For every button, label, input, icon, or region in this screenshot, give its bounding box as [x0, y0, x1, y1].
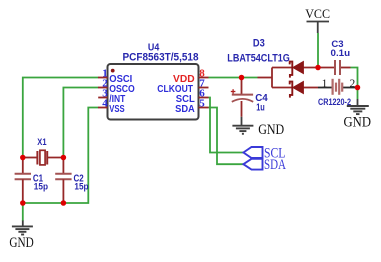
- svg-text:0.1u: 0.1u: [331, 48, 351, 58]
- svg-text:GND: GND: [9, 235, 33, 251]
- svg-text:VSS: VSS: [109, 104, 125, 115]
- U4 pin numbers left: [102, 68, 108, 110]
- capacitor C3: [335, 60, 351, 75]
- capacitor C2: [55, 158, 71, 204]
- wire pin5 SDA to SDA flag: [209, 108, 244, 165]
- svg-text:LBAT54CLT1G: LBAT54CLT1G: [227, 52, 289, 64]
- diode D3 top (schottky): [290, 62, 304, 78]
- svg-text:SDA: SDA: [264, 157, 286, 173]
- svg-text:D3: D3: [253, 38, 265, 50]
- svg-text:1u: 1u: [256, 103, 265, 114]
- wire pin1 OSCI to crystal left node: [23, 78, 99, 158]
- wire pin4 VSS to bottom ground rail: [23, 108, 99, 222]
- svg-text:2: 2: [350, 78, 356, 90]
- U4 pin names right: [157, 74, 195, 115]
- junction dot crystal right: [61, 155, 67, 161]
- wire VCC to top diode node: [317, 33, 319, 68]
- SCL net flag: [243, 146, 285, 162]
- svg-text:X1: X1: [37, 136, 46, 147]
- capacitor C4 polarized: [231, 78, 253, 117]
- VCC power symbol: [307, 22, 330, 34]
- svg-text:CR1220-2: CR1220-2: [318, 97, 351, 107]
- wire pin2 OSCO to crystal right node: [63, 88, 98, 158]
- svg-text:GND: GND: [344, 114, 372, 130]
- U4 pin-1 marker: [111, 69, 115, 73]
- SDA net flag: [243, 157, 286, 173]
- svg-text:VCC: VCC: [305, 6, 330, 21]
- U4 pin numbers right: [199, 68, 205, 110]
- U4 pin stubs right: [199, 78, 209, 108]
- battery G1 CR1220: [318, 79, 358, 95]
- junction dot rail left: [20, 200, 26, 206]
- junction dot VCC diode: [315, 65, 321, 71]
- ground below C4: [232, 117, 253, 134]
- svg-text:5: 5: [199, 98, 205, 110]
- U4 pin stubs left: [98, 78, 108, 108]
- junction dot C4 top: [239, 75, 245, 81]
- svg-text:15p: 15p: [74, 182, 89, 192]
- svg-text:SDA: SDA: [175, 104, 195, 115]
- wire C3 right to battery node and right GND: [351, 68, 358, 100]
- svg-text:4: 4: [102, 98, 108, 110]
- svg-text:1: 1: [322, 78, 328, 90]
- wire pin6 SCL to SCL flag: [209, 98, 244, 153]
- svg-text:15p: 15p: [34, 182, 49, 192]
- crystal X1: [23, 150, 64, 165]
- ground bottom left: [12, 221, 33, 235]
- svg-text:PCF8563T/5,518: PCF8563T/5,518: [123, 51, 199, 63]
- junction dot battery right: [355, 85, 361, 91]
- junction dot rail right: [61, 200, 67, 206]
- U4 pin names left: [109, 74, 135, 115]
- IC U4 body: [108, 64, 199, 120]
- diode D3 bottom (schottky): [290, 82, 304, 98]
- junction dot crystal left: [20, 155, 26, 161]
- svg-text:GND: GND: [258, 122, 284, 138]
- ground right of battery: [347, 99, 369, 114]
- diode D3 common leads: [258, 68, 335, 88]
- capacitor C1: [15, 158, 31, 204]
- wire pin8 VDD to D3 node: [209, 77, 258, 79]
